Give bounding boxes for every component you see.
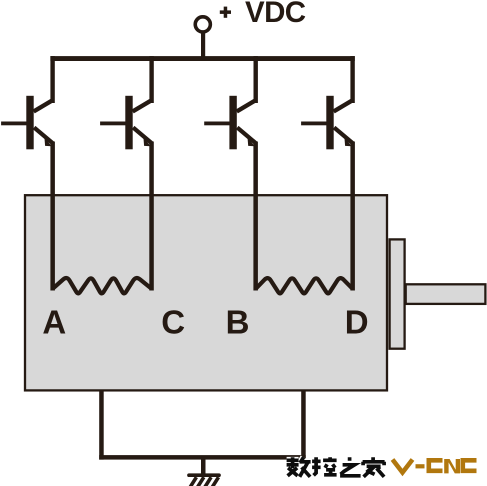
svg-text:A: A xyxy=(42,304,66,341)
wire VDC rail xyxy=(50,56,354,61)
svg-text:D: D xyxy=(345,304,369,341)
motor shaft xyxy=(406,284,486,304)
label +VDC xyxy=(220,0,306,29)
watermark V-CNC xyxy=(393,459,477,473)
svg-text:B: B xyxy=(226,304,250,341)
wire Q4 emitter lead xyxy=(350,142,355,291)
transistor Q3 xyxy=(204,56,258,149)
wire common return left xyxy=(99,390,104,460)
motor flange xyxy=(390,239,405,348)
svg-text:VDC: VDC xyxy=(245,0,306,29)
ground xyxy=(189,475,219,486)
wire ground stem xyxy=(201,457,206,475)
label A xyxy=(42,304,66,341)
label D xyxy=(345,304,369,341)
transistor Q2 xyxy=(100,56,154,149)
label B xyxy=(226,304,250,341)
node +VDC terminal xyxy=(195,17,210,32)
wire bottom bus xyxy=(99,455,306,460)
winding B-D xyxy=(256,278,353,293)
watermark 数控之家 xyxy=(287,457,385,477)
transistor Q4 xyxy=(301,56,355,149)
wire common return right xyxy=(301,390,306,460)
transistor Q1 xyxy=(1,56,55,149)
winding A-C xyxy=(53,278,152,293)
label C xyxy=(161,304,185,341)
wire supply stem xyxy=(201,34,205,59)
svg-text:C: C xyxy=(161,304,185,341)
wire Q1 emitter lead xyxy=(50,142,55,291)
wire Q2 emitter lead xyxy=(149,142,154,291)
motor body xyxy=(25,195,387,390)
wire Q3 emitter lead xyxy=(253,142,258,291)
